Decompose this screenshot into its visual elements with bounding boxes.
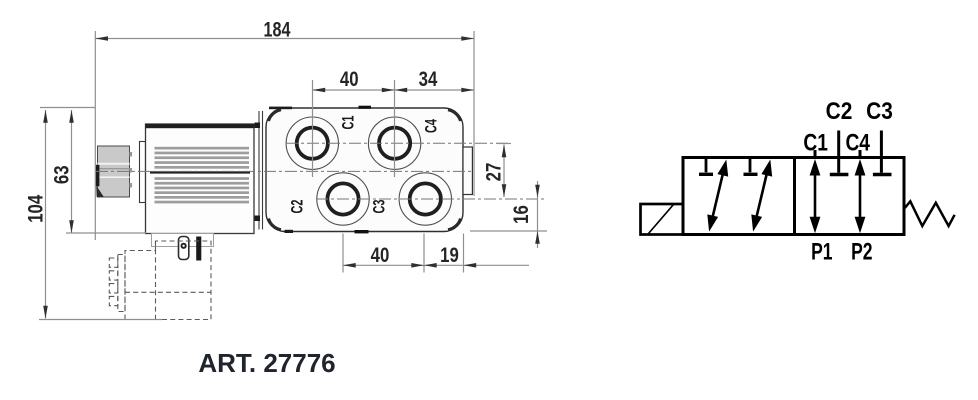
svg-text:27: 27 bbox=[483, 163, 506, 182]
svg-text:C2: C2 bbox=[288, 200, 307, 214]
solenoid tube flange bbox=[140, 142, 146, 203]
svg-text:184: 184 bbox=[264, 18, 291, 42]
bottom edge tick marks bbox=[285, 230, 294, 233]
corner fillet shading top-right bbox=[448, 110, 461, 121]
svg-text:C3: C3 bbox=[370, 200, 389, 214]
schematic: solenoid symbol bbox=[641, 204, 684, 235]
top edge tick marks bbox=[269, 107, 292, 110]
coil-body flange bbox=[259, 111, 263, 230]
solenoid coil bbox=[146, 124, 255, 234]
dimension 34 top bbox=[395, 88, 475, 93]
dimension 63 bbox=[40, 108, 146, 234]
schematic: diagonal flow arrow 2 bbox=[751, 160, 772, 232]
centerline main axis bbox=[96, 170, 473, 172]
schematic: return spring bbox=[905, 201, 955, 226]
corner fillet shading bottom-right bbox=[448, 219, 461, 230]
dashed plug connector bbox=[109, 241, 211, 320]
port C1 bbox=[286, 116, 358, 170]
connector base bbox=[152, 234, 214, 247]
svg-text:40: 40 bbox=[371, 244, 390, 267]
svg-text:C4: C4 bbox=[845, 128, 870, 156]
svg-text:34: 34 bbox=[419, 68, 438, 91]
port C2 bbox=[288, 173, 369, 225]
schematic: vertical flow arrow C4-P2 bbox=[855, 159, 866, 233]
corner fillet shading bottom-left bbox=[269, 219, 282, 230]
dimension 27 bbox=[497, 144, 511, 198]
centerline top ports bbox=[286, 142, 511, 144]
svg-text:C2: C2 bbox=[826, 98, 853, 125]
svg-text:C1: C1 bbox=[339, 116, 358, 130]
schematic: blocked port T2 left box bbox=[744, 158, 758, 174]
svg-text:C4: C4 bbox=[422, 119, 441, 133]
svg-text:16: 16 bbox=[510, 205, 533, 224]
svg-text:C3: C3 bbox=[866, 98, 893, 125]
schematic: valve body boxes bbox=[683, 158, 904, 235]
connector pin 2 bbox=[196, 237, 201, 261]
svg-text:ART. 27776: ART. 27776 bbox=[198, 348, 335, 378]
schematic: diagonal flow arrow 1 bbox=[707, 160, 728, 232]
dimension 40 bottom bbox=[343, 234, 464, 273]
svg-text:P2: P2 bbox=[851, 239, 872, 265]
schematic: blocked port T1 left box bbox=[699, 158, 713, 174]
centerline bottom ports bbox=[316, 198, 547, 200]
dimension 104 bbox=[39, 110, 162, 320]
dimension 40 top bbox=[313, 80, 475, 177]
schematic: C2 line with blocked T bbox=[830, 131, 849, 175]
svg-text:C1: C1 bbox=[803, 128, 828, 156]
svg-text:63: 63 bbox=[51, 165, 74, 184]
port C3 bbox=[370, 173, 451, 225]
svg-text:104: 104 bbox=[25, 195, 48, 223]
schematic: C1 stub line bbox=[814, 150, 817, 158]
port C4 bbox=[368, 117, 441, 169]
schematic: vertical flow arrow C1-P1 bbox=[810, 159, 821, 233]
tab on right edge bbox=[463, 147, 472, 195]
dimension 184 bbox=[95, 31, 474, 240]
svg-text:P1: P1 bbox=[811, 239, 833, 265]
dimension 19 bottom bbox=[464, 234, 530, 273]
svg-text:40: 40 bbox=[340, 68, 359, 91]
knob (manual override) bbox=[96, 146, 132, 197]
svg-text:19: 19 bbox=[440, 244, 459, 267]
dimension 16 bbox=[470, 181, 547, 248]
valve body bbox=[266, 108, 463, 232]
schematic: C3 line with blocked T bbox=[873, 131, 892, 175]
connector pin 1 bbox=[179, 237, 189, 260]
corner fillet shading top-left bbox=[269, 110, 282, 121]
schematic: C4 stub line bbox=[859, 150, 862, 158]
